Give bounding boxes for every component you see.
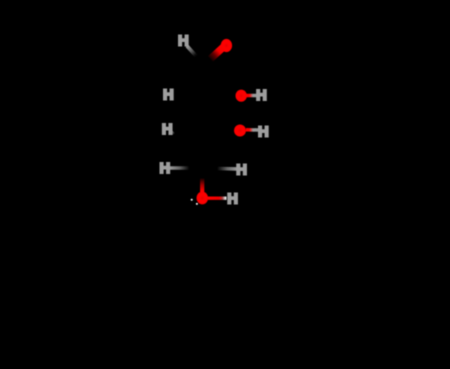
bond H6-C4 [170,166,189,170]
bond H7-C4 [218,167,238,171]
bond O4-H8 [208,196,227,199]
svg-text:H: H [159,161,170,177]
svg-text:H: H [178,34,189,50]
bond O2-H3 [246,94,258,98]
atom O1 [221,39,232,52]
sparkle dot 1 [191,199,193,201]
svg-text:H: H [162,122,173,138]
svg-text:H: H [236,163,247,179]
sparkle dot 2 [196,203,198,205]
svg-text:H: H [227,192,238,208]
atom O3 [234,125,246,137]
bond C4-O4 [200,179,204,193]
atom O2 [236,90,247,102]
double bond C1=O1 [211,47,225,59]
svg-text:H: H [163,87,174,103]
svg-text:H: H [256,88,267,104]
atom O4 [197,192,209,205]
bond C1-H1 [187,46,196,56]
svg-text:H: H [258,124,269,140]
bond H4-C3 stub [171,131,174,134]
bond O3-H5 [246,128,259,132]
